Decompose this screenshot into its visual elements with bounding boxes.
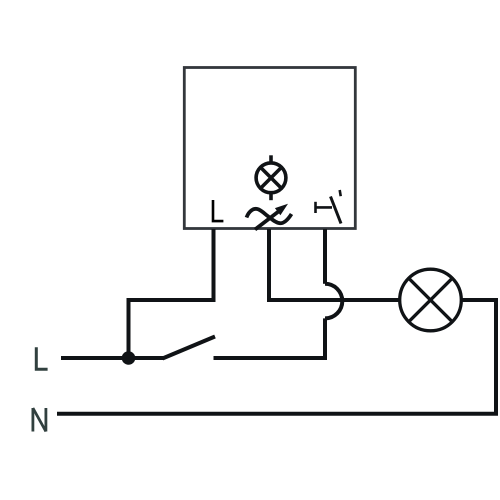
- terminal label L (inside unit): [213, 200, 223, 221]
- node label N: [33, 408, 46, 432]
- switched-live input terminal symbol: [316, 190, 342, 224]
- wire: L supply line: [61, 356, 164, 360]
- lamp E1: [400, 269, 462, 331]
- lamp symbol inside unit: [256, 155, 286, 200]
- switch S1 lever: [163, 337, 216, 359]
- wire: L terminal down, left and down to junction: [129, 229, 214, 358]
- junction dot: [122, 351, 136, 365]
- wire: hop up to unit input terminal: [323, 229, 327, 284]
- wire: switch fixed contact to unit input (with hop): [214, 318, 326, 358]
- wire: lamp to N line: [57, 300, 496, 414]
- node label L: [36, 347, 47, 369]
- wire hop over dimmer output: [325, 284, 342, 319]
- dimmer adjustment symbol (tilde with arrow): [247, 204, 292, 230]
- wire: dimmer output terminal to lamp: [269, 229, 400, 300]
- dimmer unit enclosure U1: [184, 68, 355, 229]
